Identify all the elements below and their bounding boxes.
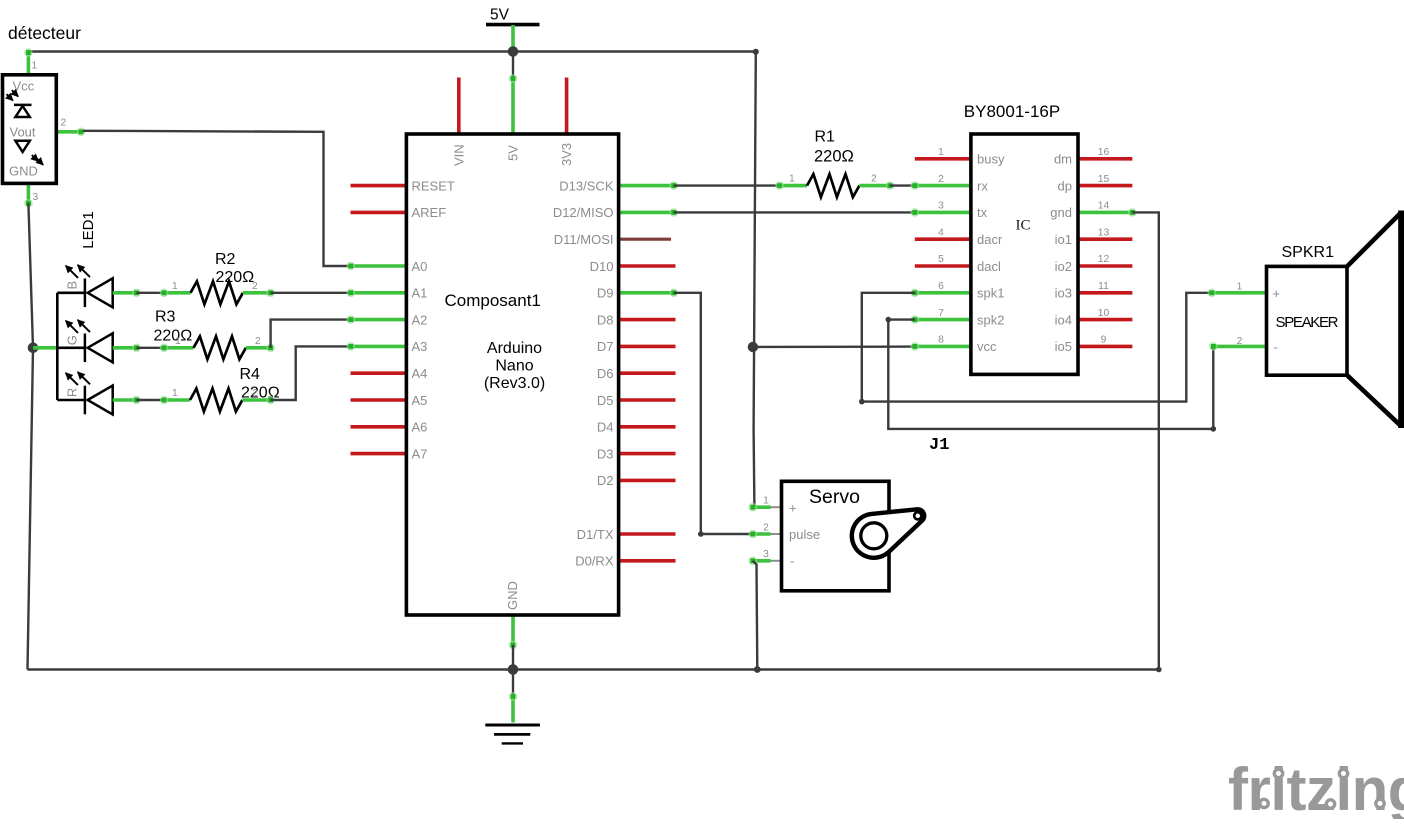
- chip right pin 12 io2: [1077, 264, 1132, 268]
- chip left pin 7 spk2: [915, 318, 972, 322]
- arduino right pin D5: [619, 398, 676, 402]
- LED1 common pin: [33, 346, 57, 350]
- resistor R4 pin 2: [242, 398, 270, 402]
- wire R1 to rx: [890, 184, 915, 186]
- svg-text:220Ω: 220Ω: [154, 328, 193, 345]
- svg-text:A0: A0: [412, 259, 428, 274]
- ground symbol pin: [511, 696, 515, 723]
- arduino left pin A0: [351, 264, 406, 268]
- svg-text:pulse: pulse: [789, 527, 820, 542]
- svg-text:J1: J1: [929, 436, 949, 455]
- wire LED R to R4: [137, 399, 165, 401]
- svg-text:220Ω: 220Ω: [814, 148, 854, 166]
- svg-text:D1/TX: D1/TX: [577, 527, 614, 542]
- LED1 pin B: [113, 291, 137, 295]
- svg-text:1: 1: [938, 147, 944, 158]
- resistor R4 pin 1: [164, 398, 190, 402]
- svg-text:dacr: dacr: [977, 232, 1003, 247]
- svg-text:4: 4: [938, 227, 944, 238]
- svg-text:A6: A6: [412, 420, 428, 435]
- detector pin 3 (GND): [27, 183, 31, 204]
- speaker pin 2: [1213, 345, 1266, 349]
- fritzing watermark: [1228, 756, 1404, 823]
- svg-text:Arduino: Arduino: [487, 340, 542, 357]
- svg-text:5V: 5V: [490, 7, 510, 24]
- svg-text:2: 2: [1237, 336, 1243, 347]
- svg-text:D0/RX: D0/RX: [575, 554, 614, 569]
- resistor R2 body: [191, 281, 243, 304]
- svg-text:13: 13: [1098, 227, 1110, 238]
- node corner spk2 b: [1211, 426, 1217, 432]
- svg-text:A2: A2: [412, 312, 428, 327]
- arduino U1 top pin VIN: [457, 78, 461, 135]
- svg-text:RESET: RESET: [412, 178, 455, 193]
- arduino top pin 3V3: [565, 78, 569, 135]
- svg-text:D12/MISO: D12/MISO: [553, 205, 614, 220]
- arduino right pin D3: [619, 452, 676, 456]
- wire detector GND down left side: [28, 203, 34, 669]
- chip U2 body box: [971, 134, 1078, 374]
- svg-text:3: 3: [763, 549, 769, 560]
- wire spk2 to speaker minus: [888, 320, 1213, 429]
- svg-text:-: -: [790, 554, 794, 569]
- wire arduino 5V pin to junction: [512, 52, 514, 78]
- svg-text:LED1: LED1: [80, 211, 97, 249]
- svg-text:D11/MOSI: D11/MOSI: [554, 232, 614, 247]
- LED1 red element R: [65, 372, 113, 414]
- wire arduino GND to rail: [512, 645, 514, 670]
- svg-text:io2: io2: [1055, 259, 1072, 274]
- svg-text:io4: io4: [1055, 312, 1072, 327]
- wire spk1 to speaker plus: [862, 293, 1212, 402]
- arduino right pin D7: [619, 345, 676, 349]
- LED1 common bracket: [57, 293, 85, 400]
- svg-text:A5: A5: [412, 393, 428, 408]
- arduino top pin 5V: [511, 77, 515, 134]
- svg-text:détecteur: détecteur: [8, 23, 81, 43]
- wire D13 to R1: [674, 184, 780, 186]
- svg-text:BY8001-16P: BY8001-16P: [964, 102, 1060, 121]
- LED1 pin R: [113, 398, 137, 402]
- arduino right pin D11/MOSI: [619, 238, 671, 241]
- arduino left pin AREF: [351, 211, 407, 215]
- svg-text:D3: D3: [597, 446, 614, 461]
- chip left pin 8 vcc: [915, 345, 972, 349]
- svg-text:spk1: spk1: [977, 286, 1004, 301]
- arduino left pin A2: [351, 318, 406, 322]
- node corner top-right: [753, 49, 759, 55]
- svg-text:R4: R4: [240, 366, 261, 383]
- svg-text:A4: A4: [412, 366, 428, 381]
- resistor R1 body: [807, 174, 859, 197]
- svg-text:7: 7: [938, 308, 944, 319]
- node junction 5V top: [508, 46, 519, 57]
- svg-text:D4: D4: [597, 420, 614, 435]
- node corner spk2 a: [886, 317, 892, 323]
- svg-text:GND: GND: [9, 164, 38, 179]
- chip right pin 11 io3: [1077, 291, 1132, 295]
- wire rail to ground symbol: [512, 670, 514, 696]
- svg-text:B: B: [65, 281, 80, 290]
- svg-text:2: 2: [61, 118, 67, 129]
- svg-text:1: 1: [763, 496, 769, 507]
- svg-text:2: 2: [255, 336, 261, 347]
- arduino right pin D0/RX: [619, 559, 676, 563]
- svg-text:D7: D7: [597, 339, 614, 354]
- svg-text:15: 15: [1098, 174, 1110, 185]
- svg-text:AREF: AREF: [412, 205, 447, 220]
- node corner spk1: [859, 399, 865, 405]
- node corner D9 wire: [698, 531, 704, 537]
- svg-text:R3: R3: [155, 309, 176, 326]
- power symbol 5V bar: [486, 23, 540, 27]
- svg-text:fritzing: fritzing: [1228, 756, 1404, 819]
- svg-text:A7: A7: [412, 446, 428, 461]
- svg-text:+: +: [1273, 286, 1281, 301]
- chip right pin 15 dp: [1077, 184, 1132, 188]
- svg-text:G: G: [65, 335, 80, 345]
- node junction vcc feed: [748, 342, 758, 352]
- arduino U1 body box: [406, 134, 618, 615]
- svg-text:R1: R1: [815, 129, 836, 146]
- chip left pin 4 dacr: [915, 237, 972, 241]
- wire junction to chip vcc: [753, 345, 915, 348]
- LED1 green element G: [65, 320, 113, 362]
- servo pin 2 pulse: [771, 533, 783, 535]
- resistor R1 pin 2: [859, 184, 890, 188]
- svg-text:+: +: [789, 501, 797, 516]
- chip left pin 3 tx: [915, 211, 972, 215]
- svg-text:3: 3: [33, 192, 39, 203]
- svg-text:Vcc: Vcc: [13, 79, 35, 94]
- resistor R4 body: [190, 389, 242, 412]
- wire LED B to R2: [137, 292, 165, 294]
- servo pin 1 plus: [771, 506, 783, 508]
- svg-text:5: 5: [938, 254, 944, 265]
- chip right pin 14 gnd: [1077, 211, 1132, 215]
- svg-text:D9: D9: [597, 286, 614, 301]
- wire LED G to R3: [137, 347, 165, 349]
- resistor R2 pin 1: [164, 291, 191, 295]
- ground symbol: [485, 725, 540, 743]
- svg-text:1: 1: [1237, 282, 1243, 293]
- LED1 pin G: [113, 346, 137, 350]
- svg-text:2: 2: [871, 173, 877, 184]
- svg-text:2: 2: [763, 522, 769, 533]
- arduino right pin D12/MISO: [619, 211, 674, 215]
- arduino left pin RESET: [351, 184, 407, 188]
- resistor R3 pin 2: [246, 346, 271, 350]
- svg-text:14: 14: [1098, 201, 1110, 212]
- detector body box: [3, 75, 57, 184]
- wire top horizontal 5V net: [28, 50, 755, 52]
- chip right pin 9 io5: [1077, 345, 1132, 349]
- svg-text:2: 2: [252, 388, 258, 399]
- servo horn symbol: [852, 509, 924, 558]
- svg-text:dp: dp: [1058, 178, 1072, 193]
- svg-text:220Ω: 220Ω: [216, 269, 255, 286]
- speaker horn: [1346, 211, 1401, 429]
- svg-text:11: 11: [1098, 281, 1109, 292]
- svg-text:io3: io3: [1055, 286, 1072, 301]
- svg-text:2: 2: [252, 281, 258, 292]
- node junction servo gnd: [754, 666, 761, 673]
- servo M1 body box: [782, 481, 890, 591]
- detector photodiode symbol: [7, 90, 32, 117]
- svg-text:1: 1: [172, 388, 178, 399]
- svg-text:D2: D2: [597, 473, 614, 488]
- detector pin 1: [27, 52, 31, 75]
- svg-text:A3: A3: [412, 339, 428, 354]
- svg-text:SPKR1: SPKR1: [1282, 244, 1335, 261]
- wire D12 to tx: [674, 211, 915, 213]
- resistor R2 pin 2: [243, 291, 271, 295]
- svg-text:3: 3: [938, 201, 944, 212]
- svg-text:Vout: Vout: [10, 124, 36, 139]
- svg-text:R2: R2: [215, 251, 236, 268]
- svg-text:VIN: VIN: [451, 144, 466, 166]
- svg-text:2: 2: [938, 174, 944, 185]
- svg-text:D10: D10: [590, 259, 614, 274]
- svg-text:6: 6: [938, 281, 944, 292]
- chip left pin 1 busy: [915, 157, 972, 161]
- svg-text:1: 1: [175, 336, 181, 347]
- chip left pin 6 spk1: [915, 291, 972, 295]
- resistor R3 body: [194, 336, 246, 359]
- wire servo minus to ground rail: [753, 561, 758, 670]
- wire R3 to A2: [271, 320, 351, 348]
- svg-text:16: 16: [1098, 147, 1110, 158]
- node corner rail right: [1156, 667, 1162, 673]
- chip left pin 2 rx: [915, 184, 972, 188]
- svg-text:8: 8: [938, 335, 944, 346]
- speaker body box: [1267, 266, 1348, 375]
- arduino left pin A5: [351, 398, 407, 402]
- svg-text:Servo: Servo: [809, 486, 860, 508]
- svg-text:gnd: gnd: [1050, 205, 1072, 220]
- wire D9 to servo pulse: [674, 293, 753, 534]
- svg-text:vcc: vcc: [977, 339, 997, 354]
- svg-text:D8: D8: [597, 312, 614, 327]
- svg-text:12: 12: [1098, 254, 1110, 265]
- node junction LED common: [28, 343, 39, 354]
- svg-text:10: 10: [1098, 308, 1110, 319]
- detector pin 2 (Vout): [56, 130, 83, 134]
- svg-text:tx: tx: [977, 205, 988, 220]
- svg-text:Nano: Nano: [495, 358, 533, 375]
- arduino left pin A4: [351, 371, 407, 375]
- wire gnd pin14 down to ground rail: [1132, 212, 1158, 669]
- arduino right pin D13/SCK: [619, 184, 674, 188]
- wire R4 to A3: [271, 346, 351, 400]
- arduino bottom pin GND: [511, 615, 515, 646]
- chip right pin 13 io1: [1077, 237, 1132, 241]
- arduino left pin A1: [351, 291, 406, 295]
- chip left pin 5 dacl: [915, 264, 972, 268]
- svg-text:D5: D5: [597, 393, 614, 408]
- detector led symbol: [15, 141, 43, 165]
- arduino right pin D9: [619, 291, 674, 295]
- svg-text:busy: busy: [977, 152, 1005, 167]
- svg-text:dm: dm: [1054, 152, 1072, 167]
- arduino left pin A3: [351, 345, 406, 349]
- svg-text:rx: rx: [977, 178, 988, 193]
- svg-text:SPEAKER: SPEAKER: [1276, 314, 1339, 331]
- arduino right pin D6: [619, 371, 676, 375]
- svg-text:1: 1: [32, 61, 38, 72]
- arduino right pin D10: [619, 264, 676, 268]
- node junction arduino gnd: [508, 664, 519, 675]
- arduino right pin D2: [619, 479, 676, 483]
- speaker pin 1: [1212, 291, 1267, 295]
- svg-text:GND: GND: [505, 581, 520, 610]
- arduino left pin A6: [351, 425, 407, 429]
- svg-text:spk2: spk2: [977, 312, 1004, 327]
- svg-text:io1: io1: [1055, 232, 1072, 247]
- svg-text:IC: IC: [1016, 218, 1031, 234]
- svg-text:-: -: [1274, 339, 1278, 354]
- svg-text:5V: 5V: [506, 145, 521, 161]
- LED1 blue element B: [65, 265, 113, 307]
- svg-text:1: 1: [172, 281, 178, 292]
- svg-text:(Rev3.0): (Rev3.0): [484, 375, 545, 392]
- arduino left pin A7: [351, 452, 407, 456]
- svg-text:io5: io5: [1055, 339, 1072, 354]
- wire detector Vout to A0: [83, 131, 351, 266]
- chip right pin 10 io4: [1077, 318, 1132, 322]
- svg-text:Composant1: Composant1: [445, 291, 541, 310]
- svg-text:R: R: [65, 388, 80, 397]
- svg-text:dacl: dacl: [977, 259, 1001, 274]
- arduino right pin D1/TX: [619, 532, 676, 536]
- servo pin 3 minus: [771, 560, 783, 562]
- wire ground rail bottom: [28, 668, 1159, 670]
- svg-text:A1: A1: [412, 286, 428, 301]
- svg-text:1: 1: [789, 173, 795, 184]
- svg-text:D13/SCK: D13/SCK: [559, 178, 614, 193]
- resistor R3 pin 1: [164, 346, 194, 350]
- svg-text:D6: D6: [597, 366, 614, 381]
- resistor R1 pin 1: [780, 184, 808, 188]
- arduino right pin D8: [619, 318, 676, 322]
- wire 5V symbol to junction: [511, 25, 515, 52]
- arduino right pin D4: [619, 425, 676, 429]
- wire 5V vertical to servo plus: [754, 52, 756, 507]
- svg-text:3V3: 3V3: [559, 143, 574, 166]
- chip right pin 16 dm: [1077, 157, 1132, 161]
- svg-text:9: 9: [1101, 335, 1107, 346]
- wire R2 to A1: [271, 292, 351, 294]
